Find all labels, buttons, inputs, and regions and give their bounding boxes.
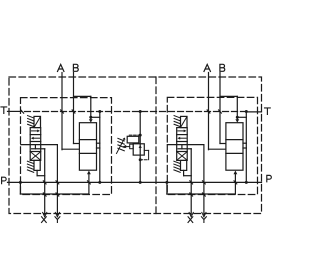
flow arrow right left <box>31 130 38 132</box>
check left stub B left <box>74 143 80 145</box>
wire B tee to check top left <box>74 95 91 97</box>
wire valve tail to X right <box>183 170 185 175</box>
port P label left <box>2 177 7 183</box>
port X label right <box>188 217 193 223</box>
check right stub lower right <box>243 147 246 149</box>
wire port X line right <box>190 149 192 215</box>
relief drain loop <box>144 149 148 151</box>
junction dot drain on P right <box>165 181 168 184</box>
wire T entry right <box>246 111 261 113</box>
valve top box left <box>34 116 41 127</box>
arrow into check top left <box>89 119 93 122</box>
relief inlet arrow <box>126 146 130 148</box>
arrowhead port X left <box>43 212 45 216</box>
arrowhead port Y left <box>55 212 57 216</box>
check right stub upper right <box>243 142 246 144</box>
port T label right <box>265 108 271 114</box>
relief adjustable spring <box>118 138 124 141</box>
junction dot drain on P left <box>19 181 22 184</box>
wire valve tail to X left <box>36 170 38 175</box>
port B label right <box>220 64 225 71</box>
check right stub lower left <box>97 147 100 149</box>
valve bottom box right <box>181 160 187 170</box>
wire port X line left <box>44 149 46 215</box>
wire drain to P tee right <box>166 182 168 194</box>
wire P supply rail <box>8 181 262 183</box>
wire drain to P tee left <box>19 182 21 194</box>
relief nozzle box <box>130 144 134 149</box>
spring top of valve right <box>174 116 180 118</box>
wire side rail to Y right <box>167 144 204 146</box>
junction dot rail on P right <box>245 181 248 184</box>
wire check right rail right <box>245 112 247 183</box>
plate boundary dashed line <box>155 77 157 214</box>
wire port B line left <box>73 73 75 144</box>
check divider lower right <box>226 152 243 154</box>
check left stub B right <box>220 143 226 145</box>
crossed position left <box>31 152 40 160</box>
port B label left <box>73 64 78 71</box>
wire T internal drain rail <box>25 111 247 113</box>
valve top box right <box>181 116 188 127</box>
junction dot relief top <box>139 110 142 113</box>
valve spool box left <box>30 128 41 161</box>
junction dot check top tee right <box>236 116 239 119</box>
crossed position right <box>178 152 187 160</box>
flow arrow left left <box>33 137 40 139</box>
wire side rail to Y left <box>21 144 58 146</box>
pilot seat stub right <box>181 145 183 149</box>
spring bottom of valve left <box>27 161 33 163</box>
flow arrow left right <box>179 137 186 139</box>
spring top of valve left <box>28 116 34 118</box>
junction dot rail on P left <box>98 181 101 184</box>
wire tee to right rail left <box>91 116 100 118</box>
wire T entry left <box>8 110 22 112</box>
check divider upper right <box>226 139 243 141</box>
outer manifold dashed border <box>9 77 262 214</box>
wire port Y line left <box>56 145 58 215</box>
check divider lower left <box>79 152 96 154</box>
wire port A line right <box>208 73 210 150</box>
wire A to check lower stub right <box>209 148 226 150</box>
wire check bottom drain right <box>234 174 236 194</box>
port P label right <box>267 175 272 181</box>
wire port B line right <box>219 73 221 144</box>
arrow out of check bottom left <box>87 171 91 175</box>
check divider upper left <box>79 139 96 141</box>
port X label left <box>42 217 47 223</box>
port Y label left <box>55 217 60 223</box>
junction dot relief bottom <box>139 181 142 184</box>
arrowhead port Y right <box>202 212 204 216</box>
wire tee to right rail right <box>237 116 246 118</box>
spring bottom of valve right <box>174 161 180 163</box>
left section dashed border <box>21 98 112 195</box>
junction dot pilot tap <box>139 134 142 137</box>
port A label right <box>204 64 210 71</box>
junction dot rail top left <box>98 110 101 113</box>
junction dot rail top right <box>245 110 248 113</box>
check valve body right <box>226 123 243 171</box>
check right stub upper left <box>97 142 100 144</box>
port Y label right <box>201 217 206 223</box>
valve bottom box left <box>34 160 40 170</box>
wire A to check lower stub left <box>62 148 79 150</box>
relief flow arrow up <box>139 145 142 148</box>
wire port Y line right <box>203 145 205 215</box>
wire port A line left <box>61 73 63 150</box>
check valve body left <box>79 123 96 171</box>
junction dot check top tee left <box>89 116 92 119</box>
port T label left <box>1 107 7 113</box>
arrowhead port X right <box>189 212 191 216</box>
relief main box <box>133 144 144 155</box>
relief valve main line <box>139 112 141 183</box>
port A label left <box>58 64 64 71</box>
wire check right rail left <box>99 112 101 183</box>
relief drain dashed <box>140 159 148 161</box>
relief pilot box <box>127 136 139 143</box>
arrow into check top right <box>235 119 239 122</box>
wire B tee to check top right <box>220 95 237 97</box>
wire check bottom drain left <box>88 174 90 194</box>
junction dot drain <box>139 158 142 161</box>
flow arrow right right <box>178 130 185 132</box>
arrow out of check bottom right <box>234 171 238 175</box>
pilot seat stub left <box>34 145 36 149</box>
relief pilot dashed line <box>129 134 140 136</box>
valve spool box right <box>177 128 188 161</box>
right section dashed border <box>167 97 257 194</box>
